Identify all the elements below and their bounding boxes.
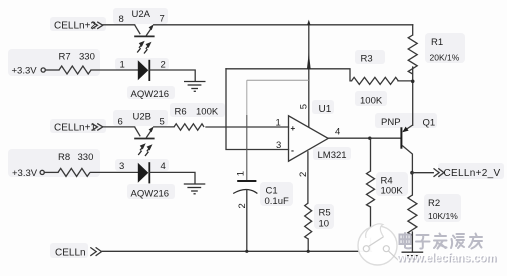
svg-text:www.elecfans.com: www.elecfans.com [396,252,496,264]
svg-text:6: 6 [118,116,123,127]
junction node R4/output [368,137,371,140]
resistor R2 [408,195,417,235]
resistor R4 [367,171,375,207]
transistor Q1 collector [402,146,412,173]
watermark text 电子发烧友 (drawn pseudo-glyphs, embossed light grey) [400,233,483,249]
wire C1 bottom to rail [246,190,248,251]
LED U2A (diode) [138,60,149,80]
output chevron connector [434,168,444,176]
wire LED cathode to ground row2 [150,172,195,183]
capacitor C1 top plate [237,180,256,182]
wire R4 top [370,138,372,171]
ground row1 [184,82,206,92]
resistor R3 [352,77,399,84]
wire R2 bottom to ground [411,232,413,252]
svg-text:3: 3 [276,140,281,151]
node CELLn+2 chevron connector [92,22,103,29]
photoMOS switch U2A [134,24,154,36]
resistor R7 [59,66,91,74]
wire CELLn+1 to U2B pin6 [103,126,135,128]
LED cathode bar U2B [148,162,150,183]
svg-text:LM321: LM321 [318,150,347,161]
wire CELLn rail [102,250,372,252]
wire R2 top [411,173,413,195]
resistor R8 [58,168,90,176]
svg-text:330: 330 [78,152,94,163]
watermark logo circle [358,224,400,265]
svg-text:7: 7 [160,14,165,25]
svg-text:R5: R5 [319,208,331,219]
svg-text:R6: R6 [175,107,187,118]
svg-text:100K: 100K [360,96,383,107]
wire top rail down right / R1 top [412,25,414,35]
wire CELLn+2 to U2A pin8 [103,24,135,26]
junction node collector/output [410,171,414,175]
svg-text:3: 3 [119,161,124,172]
svg-text:4: 4 [161,161,166,172]
resistor R5 [305,203,312,239]
wire R3 feedback horizontal [226,69,352,81]
wire R3 to node [398,80,413,82]
svg-text:AQW216: AQW216 [131,89,170,100]
ground R2 [402,252,424,259]
wire R8 to LED anode [91,171,138,173]
svg-text:10K/1%: 10K/1% [428,211,458,221]
transistor Q1 emitter arrow (PNP) [402,127,408,133]
svg-text:R2: R2 [428,198,440,209]
junction node R3/R1 [411,80,415,84]
junction node C1/rail [245,250,248,253]
junction arrow at feedback crossing [307,53,311,70]
svg-text:R8: R8 [58,152,70,163]
svg-text:PNP: PNP [381,117,401,128]
watermark text www.elecfans.com [396,252,497,265]
svg-text:+3.3V: +3.3V [12,66,38,77]
wire C1 top (grey) [247,79,309,81]
wire feedback vertical to pin3 [226,69,289,150]
wire terminal to R7 [45,69,59,71]
svg-text:CELLn+2_V: CELLn+2_V [444,168,501,179]
transistor Q1 bar [400,127,402,148]
photoMOS switch U2B [134,126,154,138]
svg-text:R7: R7 [59,52,71,63]
svg-text:Q1: Q1 [423,117,436,128]
ground row2 [184,184,206,194]
svg-text:4: 4 [335,127,340,138]
node CELLn chevron connector [90,247,101,255]
wire op-amp pin2 to R5 [307,152,309,203]
svg-text:CELLn+2: CELLn+2 [54,21,96,32]
svg-text:-: - [291,146,294,156]
svg-text:C1: C1 [266,186,278,197]
node CELLn+1 chevron connector [92,123,103,130]
svg-text:U2A: U2A [132,9,151,20]
svg-text:CELLn: CELLn [55,247,86,258]
svg-text:0.1uF: 0.1uF [265,196,289,207]
wire R5 to rail [307,239,309,251]
wire R4 bottom to rail [370,207,372,251]
wire U2B pin5 to R6 [154,126,174,128]
junction arrow top rail [307,20,311,26]
LED light arrows U2A [137,42,150,54]
wire R1 bottom to emitter [412,67,414,125]
svg-text:U2B: U2B [133,112,151,123]
resistor R1 [408,35,417,74]
svg-text:20K/1%: 20K/1% [430,53,460,63]
svg-text:+: + [291,124,296,133]
wire terminal to R8 [44,171,58,173]
capacitor C1 bottom plate (arc) [233,190,257,194]
svg-text:5: 5 [298,104,309,109]
svg-text:R1: R1 [431,37,443,48]
junction node R5/rail [307,250,310,253]
svg-text:100K: 100K [196,107,219,118]
svg-text:AQW216: AQW216 [131,189,170,200]
svg-text:8: 8 [119,14,124,25]
LED cathode bar [148,60,150,81]
wire op-amp output pin4 to Q1 base [328,137,400,139]
svg-text:1: 1 [120,60,125,71]
transistor Q1 emitter [403,125,413,132]
wire R6 to op-amp pin1 [206,126,289,128]
open terminal circle row2 [40,170,44,174]
svg-text:1: 1 [236,171,247,176]
op-amp U1 triangle [289,116,329,161]
wire U2A pin7 to top rail [154,24,413,26]
svg-text:330: 330 [79,52,95,63]
svg-text:5: 5 [160,116,165,127]
wire R7 to LED anode [91,69,138,71]
resistor R6 [174,124,204,130]
LED light arrows U2B [138,145,151,157]
svg-text:1: 1 [276,118,281,129]
svg-text:R3: R3 [361,54,373,65]
svg-text:CELLn+1: CELLn+1 [54,123,96,134]
wire LED cathode to ground [150,70,195,81]
svg-text:+3.3V: +3.3V [12,168,38,179]
svg-text:2: 2 [161,60,166,71]
LED U2B (diode) [138,163,149,183]
wire C1 vertical [246,80,248,115]
wire op-amp V+ vertical [308,25,310,127]
open terminal circle row1 [41,68,45,72]
svg-text:U1: U1 [319,104,332,115]
wire output to connector [412,172,433,174]
svg-text:100K: 100K [381,186,404,197]
svg-text:10: 10 [319,219,330,230]
